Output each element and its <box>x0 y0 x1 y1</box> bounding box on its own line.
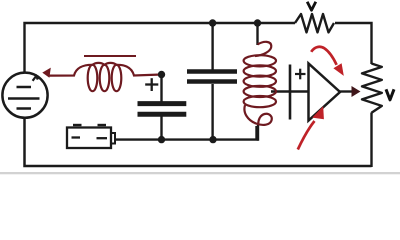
capacitor C1 plate top <box>138 101 187 106</box>
node junction dot top C2 <box>209 19 216 26</box>
battery tab left <box>73 124 82 126</box>
feedback arrow top <box>311 47 336 65</box>
grey border bottom <box>0 172 400 174</box>
op-amp triangle U1 <box>309 64 341 121</box>
inductor L1 core bar <box>84 55 136 57</box>
capacitor C1 plus label <box>145 78 158 91</box>
wire right vertical top <box>335 23 372 64</box>
wire middle rail battery <box>114 126 257 140</box>
inductor L1 arrowhead <box>42 68 51 78</box>
wire left vertical lower <box>25 118 372 167</box>
op-amp output arrowhead <box>352 86 361 97</box>
resistor R1 label V <box>307 2 316 11</box>
inductor L1 coil <box>50 63 159 91</box>
wire cap C1 bottom lead <box>160 116 162 140</box>
wire cap C2 bottom lead <box>211 84 213 140</box>
source tick mark <box>33 76 38 81</box>
battery minus right <box>97 137 108 139</box>
source line short bottom <box>17 107 32 110</box>
capacitor C2 plate bottom <box>187 79 237 84</box>
battery box <box>67 128 111 149</box>
resistor R2 zigzag <box>362 64 382 113</box>
battery nub <box>111 133 115 144</box>
source line long middle <box>8 97 40 100</box>
node junction dot bottom C1 <box>158 136 165 143</box>
node junction dot top L2 <box>254 19 261 26</box>
wire right vertical bottom <box>370 113 372 168</box>
op-amp input bar <box>289 65 292 120</box>
wire cap C1 top lead <box>160 75 162 103</box>
inductor L2 coil <box>244 42 276 125</box>
wire op-amp input <box>271 90 308 92</box>
wire top rail <box>25 23 296 73</box>
wire cap C2 top lead <box>211 23 213 70</box>
capacitor C2 plate top <box>187 69 237 74</box>
op-amp plus label <box>295 69 306 80</box>
node junction dot bottom C2 <box>209 136 216 143</box>
wire coil L2 top lead <box>256 23 258 45</box>
battery tab right <box>98 124 107 126</box>
node junction dot L1-C1 <box>158 71 165 78</box>
resistor R1 zigzag <box>295 14 334 32</box>
wire coil L2 bottom lead <box>257 125 259 141</box>
battery minus left <box>72 136 81 138</box>
source line short top <box>17 86 32 89</box>
resistor R2 label V <box>386 89 394 100</box>
feedback arrow bottom <box>298 121 315 150</box>
wire op-amp output <box>340 90 354 92</box>
source circle <box>2 73 47 118</box>
capacitor C1 plate bottom <box>138 112 187 117</box>
